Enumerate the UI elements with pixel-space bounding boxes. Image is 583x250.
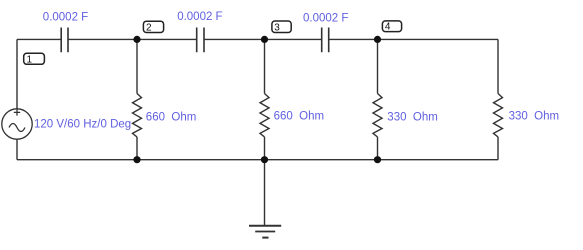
svg-text:330 Ohm: 330 Ohm bbox=[387, 112, 438, 124]
svg-text:1: 1 bbox=[27, 55, 33, 66]
svg-text:330 Ohm: 330 Ohm bbox=[509, 111, 559, 123]
svg-text:0.0002 F: 0.0002 F bbox=[303, 12, 348, 24]
svg-text:3: 3 bbox=[274, 22, 280, 33]
svg-text:0.0002 F: 0.0002 F bbox=[177, 11, 222, 23]
svg-text:4: 4 bbox=[385, 22, 391, 33]
svg-text:120 V/60 Hz/0 Deg: 120 V/60 Hz/0 Deg bbox=[34, 118, 131, 130]
svg-text:0.0002 F: 0.0002 F bbox=[43, 11, 88, 23]
svg-text:2: 2 bbox=[146, 23, 152, 34]
svg-text:660 Ohm: 660 Ohm bbox=[146, 111, 197, 123]
svg-text:660 Ohm: 660 Ohm bbox=[274, 111, 325, 123]
